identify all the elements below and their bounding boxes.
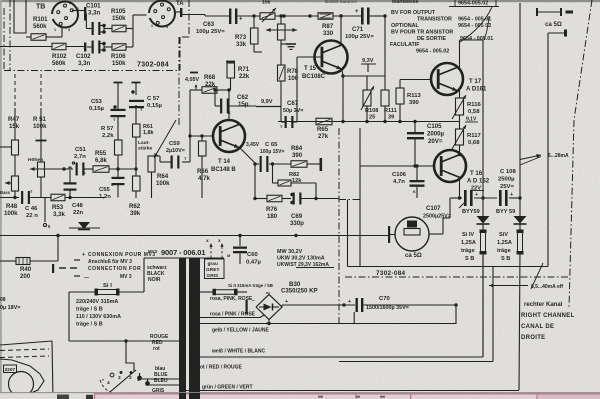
connector bar 2 (189, 258, 200, 399)
resistor R71 (226, 62, 250, 91)
T14 emitter wire (239, 147, 255, 164)
trimmer R116 (452, 90, 481, 119)
bottom strip marks (57, 395, 411, 399)
label wahlweise (391, 0, 499, 7)
wire C63 to trimmer (238, 14, 261, 17)
label rouge (150, 334, 169, 352)
resistor R102 (52, 43, 67, 67)
connector top edge (144, 257, 224, 259)
label 9,9V (227, 99, 281, 107)
diode between buses (69, 222, 100, 230)
wire row weiss (200, 356, 483, 358)
capacitor C69 (282, 193, 339, 228)
resistor R55 (93, 150, 109, 172)
schwarz wire (143, 258, 145, 292)
right rail x520 (519, 3, 521, 216)
capacitor C102 (76, 41, 100, 68)
resistor R76 (255, 195, 282, 220)
bridge labels (266, 281, 318, 326)
resistor R105 (111, 8, 126, 32)
bottom strip base (0, 393, 600, 399)
capacitor C108 (498, 169, 516, 206)
right margin dash-dot (569, 0, 592, 308)
transistor T14 (211, 120, 245, 173)
fuse Si II (200, 283, 273, 295)
T14 collector wire (228, 90, 230, 120)
label FACULATIF (390, 42, 420, 48)
capacitor C62 (215, 90, 249, 115)
resistor R101 (31, 16, 48, 40)
resistor R68 (190, 74, 217, 136)
capacitor C106 (392, 164, 425, 198)
bridge ac bar (246, 300, 248, 314)
resistor R65 (316, 118, 332, 140)
wire row extra (339, 361, 493, 363)
label weiss (211, 349, 265, 355)
label MW UKW table (277, 249, 334, 268)
channel divider dash-dot x339 (338, 128, 340, 323)
label rot (198, 365, 243, 371)
transformer right edge (52, 341, 53, 399)
wire row rosa box (200, 323, 456, 325)
rail x483 from corner (482, 40, 484, 216)
T15 emitter wire (342, 70, 343, 121)
T16 emitter wire (458, 179, 461, 200)
R84 right terminal bar (307, 158, 322, 171)
dashed lamination lines (0, 349, 49, 358)
resistor R73 (235, 16, 258, 48)
bridge output wire (281, 305, 283, 307)
TA DIN socket (146, 1, 184, 27)
resistor R87 (318, 13, 334, 37)
TA pin stub and contact bar (175, 8, 182, 17)
resistor R40 (0, 236, 58, 281)
T16 base wire (360, 164, 434, 167)
T17 collector wire (459, 40, 461, 69)
TB DIN socket (36, 2, 78, 28)
wire R82 right (291, 182, 316, 184)
transformer top line (0, 341, 52, 345)
speaker impedance symbol (536, 8, 573, 28)
stub from dashdot row (347, 200, 349, 267)
capacitor C70 (348, 296, 456, 312)
chassis dash-dot horizontal y70 (4, 70, 179, 72)
wire R55 to volume node (109, 167, 138, 170)
T14 base wire (188, 134, 214, 137)
wire tone row y169 (34, 167, 73, 170)
T17 base wire (400, 79, 431, 81)
label 9,1V (465, 117, 478, 123)
label right channel (521, 302, 575, 341)
T14 feedback emitter node (246, 142, 260, 166)
bass pot arrow (5, 181, 12, 185)
node 5 terminal (43, 198, 51, 230)
label rosa 1 (210, 296, 255, 304)
wire emitter down to feedback (253, 164, 256, 200)
volume pot arrow (154, 120, 176, 158)
rail y76 for trimmers (341, 74, 385, 77)
speaker right lead (429, 198, 450, 234)
treble pot Hoehen (28, 74, 47, 198)
fuse Si I (69, 283, 144, 296)
capacitor C46 (0, 189, 51, 219)
resistor R113 (396, 80, 421, 122)
TB pin2 stub and contact bar (72, 7, 86, 21)
resistor R57 (101, 117, 122, 171)
R78 bottom wire (280, 81, 282, 106)
label schwarz (147, 265, 167, 283)
switch contact pads (137, 373, 150, 386)
scan top edge band (0, 0, 600, 2)
mains rating text (76, 299, 121, 328)
balance pot (266, 14, 297, 40)
feedback vertical (315, 183, 317, 199)
label 2207 (4, 365, 17, 373)
wire TA to C63 (182, 15, 229, 17)
diode D left (477, 216, 490, 224)
resistor R82 (273, 164, 303, 186)
bottom strip shadow line (0, 392, 600, 394)
wire R68 to T14 collector node (213, 88, 230, 91)
label TRANSISTOR (417, 17, 491, 23)
bridge rectifier B30 (256, 295, 282, 320)
transistor T17 (431, 63, 487, 95)
x marks (206, 239, 221, 244)
label DE SORTIE (417, 36, 493, 42)
transistor T15 (302, 41, 348, 81)
connector bar 1 (179, 258, 186, 399)
chassis dash-dot vertical x179 (178, 37, 180, 125)
TA pin labels (151, 24, 168, 29)
transformer outline (0, 359, 44, 399)
wire trimmer to R87 (275, 14, 318, 17)
riser 2 (482, 252, 484, 357)
fuse SiV (497, 225, 524, 391)
label 9007-006.01 (148, 248, 205, 257)
label OPTIONAL (391, 23, 491, 29)
trimmer R117 (452, 115, 481, 149)
wire R102 row from left edge (0, 46, 52, 48)
volume pot R64 (148, 156, 170, 198)
capacitor C71 (345, 8, 374, 41)
dash-dot link to module box (339, 199, 360, 201)
T15 base wire (297, 57, 322, 122)
chassis dash-dot TA right edge (180, 0, 189, 71)
switch arc (100, 380, 118, 395)
label gelb (212, 328, 270, 334)
chassis dash-dot left inner (9, 0, 11, 70)
treble pot arrow (30, 167, 38, 171)
black bars over strip (179, 393, 200, 399)
narrow box top-left (14, 0, 26, 33)
label BYY59 left (462, 209, 480, 215)
capacitor C60 (227, 236, 261, 266)
wire rouge (69, 292, 180, 343)
label BV POUR (391, 30, 453, 36)
resistor R62 (129, 156, 141, 217)
capacitor C48 (64, 167, 84, 216)
label Lautstaerke (138, 140, 152, 152)
wire R53 to C48 node (13, 196, 105, 199)
long rail y121 (278, 120, 460, 123)
label 7302-084 left (137, 62, 169, 69)
wire R105 R106 to TA node (126, 15, 149, 47)
label BV FOR OUTPUT (391, 10, 436, 16)
resistor R47 (0, 74, 20, 155)
label gris (151, 388, 166, 399)
voltage selector switch (102, 371, 140, 386)
dash-dot horizontal y277 (345, 276, 569, 278)
wire to R106 (104, 46, 112, 48)
chassis dash-dot left outer (3, 8, 5, 70)
resistor R61 (131, 83, 153, 157)
label 9654 bottom (416, 49, 449, 55)
capacitor C105 (407, 122, 445, 167)
wire R102 to contact bar (66, 43, 86, 52)
wire R87 to C71 (333, 14, 361, 17)
pink table (94, 394, 600, 399)
wire C51 to R55 (84, 168, 93, 170)
label 8,5-40mA (489, 263, 563, 290)
pointer curves (460, 7, 492, 42)
caps row wire y198 (450, 196, 522, 199)
label rosa 2 (210, 312, 256, 318)
speaker left lead (388, 226, 395, 243)
C102 output junctions (99, 42, 106, 52)
wire gris (150, 384, 181, 386)
label gruen (202, 385, 253, 391)
capacitor C55 (99, 169, 125, 200)
label 7302-084 module (376, 270, 406, 277)
label left electrolytic (0, 297, 20, 311)
capacitor C63 (196, 9, 243, 36)
resistor R78 (278, 44, 299, 82)
trimmer R111 (381, 14, 397, 121)
wire row gruen (180, 390, 519, 392)
label 4,05V with tick (185, 73, 199, 91)
T15 collector wire (339, 14, 342, 45)
wire R73 bottom (254, 44, 262, 52)
wire R101 row (26, 27, 62, 37)
module box right edge (547, 33, 549, 267)
module box left edge (359, 128, 361, 267)
resistor R66 (197, 136, 210, 198)
capacitor C107 (423, 190, 478, 220)
grau label box (205, 259, 225, 279)
module box bottom edge (348, 266, 549, 268)
capacitor C65 (255, 142, 285, 172)
wire to R105 (104, 28, 112, 30)
capacitor C51 (72, 147, 86, 176)
dashed probe arrows (209, 243, 223, 258)
MV3 terminal bar (52, 260, 80, 276)
main bus y235 (0, 234, 389, 237)
fuse Si IV (461, 225, 487, 358)
C70 wire (282, 303, 355, 306)
riser 1 (454, 303, 457, 324)
switch feed wire (126, 341, 134, 371)
label R51 (33, 116, 47, 130)
diode D right (514, 216, 527, 224)
C70 link to row (353, 312, 355, 324)
bass pot (0, 155, 19, 198)
capacitor C59 (166, 136, 190, 169)
loudspeaker (395, 217, 429, 259)
capacitor C57 (129, 96, 162, 112)
label 9,3V (361, 58, 376, 72)
resistor R106 (111, 44, 126, 67)
label BYY59 right (496, 209, 515, 215)
trimmer 15k (260, 0, 276, 22)
label connexion MV3 (82, 252, 156, 281)
wire rosa 2 (200, 315, 264, 318)
transistor T16 (434, 150, 490, 192)
switch arm (104, 370, 136, 397)
ground symbol balance (281, 40, 296, 49)
capacitor C101 (86, 3, 101, 36)
riser 3 (492, 267, 494, 362)
label C105 measure arrows (520, 153, 569, 165)
transformer circle (9, 372, 34, 397)
capacitor C53 (89, 83, 126, 123)
resistor R53 (51, 194, 65, 218)
balance marking cut at top (325, 0, 357, 4)
TB pin labels (54, 1, 79, 32)
wire R117 to T16 (459, 145, 461, 154)
resistor R84 (269, 145, 307, 167)
wire C71 to right rail (370, 15, 386, 17)
capacitor C67 (280, 100, 303, 129)
wire blau (142, 378, 181, 380)
bridge dc minus stub (267, 320, 270, 326)
label blau (154, 366, 168, 384)
trimmer R108 (361, 76, 378, 122)
top corner wire y40 (460, 39, 484, 41)
module output tick (548, 30, 567, 37)
scan left edge band (0, 0, 2, 399)
C101 output junctions (99, 24, 106, 34)
